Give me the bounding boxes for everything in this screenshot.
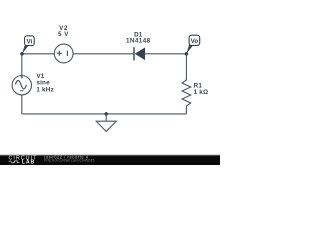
wire right vertical to R1 <box>185 54 187 80</box>
wire diode to node Vo <box>145 53 186 55</box>
diode D1 <box>134 47 145 60</box>
wire top-left horizontal <box>22 53 54 55</box>
wire R1 bottom <box>185 106 187 114</box>
svg-text:Vo: Vo <box>191 38 199 45</box>
node Vi junction <box>20 52 24 56</box>
svg-text:1 kHz: 1 kHz <box>36 87 53 94</box>
ground <box>96 114 116 132</box>
net label Vo <box>186 35 199 54</box>
resistor R1 <box>182 80 191 106</box>
wire left vertical (node Vi to V1) <box>21 54 23 76</box>
svg-text:sine: sine <box>36 80 50 87</box>
footer bar <box>0 155 220 165</box>
wire bottom horizontal <box>22 113 187 115</box>
voltage source V2 <box>54 44 73 63</box>
voltage source V1 <box>12 76 31 95</box>
svg-text:http://circuitlab.com/c3452d5: http://circuitlab.com/c3452d5 <box>44 159 94 163</box>
CircuitLab logo <box>9 156 38 166</box>
svg-text:LAB: LAB <box>22 159 35 165</box>
wire V2 to diode <box>73 53 134 55</box>
svg-text:1 kΩ: 1 kΩ <box>194 89 209 96</box>
wire V1 bottom <box>21 95 23 114</box>
node Vo junction <box>185 52 189 56</box>
svg-text:5 V: 5 V <box>58 31 69 38</box>
net label Vi <box>22 36 34 54</box>
node ground junction <box>104 112 108 116</box>
svg-text:1N4148: 1N4148 <box>126 37 151 44</box>
svg-text:Vi: Vi <box>26 39 32 46</box>
